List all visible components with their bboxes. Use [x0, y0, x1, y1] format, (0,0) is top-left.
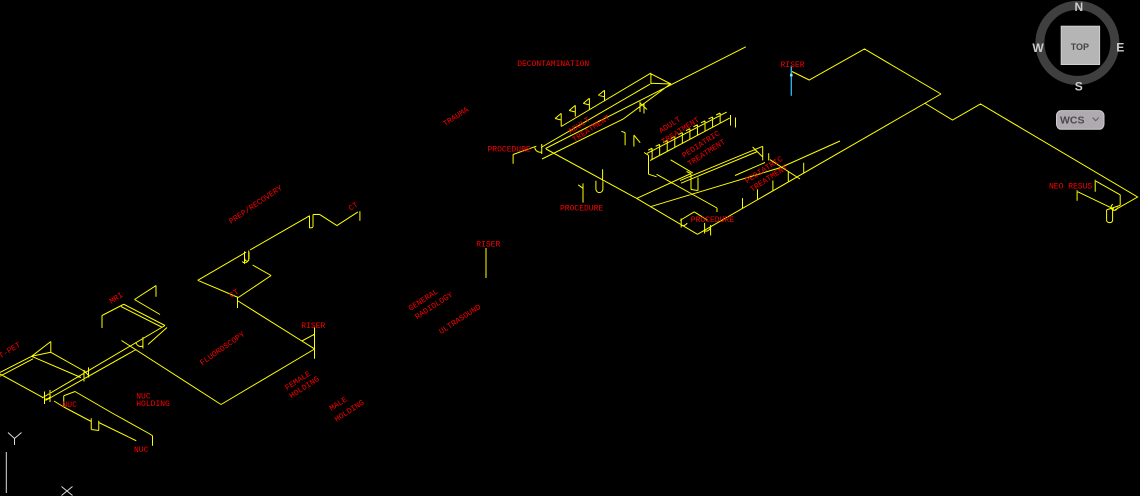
- svg-text:N: N: [1074, 0, 1083, 14]
- svg-text:NUC: NUC: [63, 401, 78, 410]
- svg-text:PROCEDURE: PROCEDURE: [488, 146, 531, 155]
- svg-text:NUC: NUC: [134, 446, 149, 455]
- svg-text:PROCEDURE: PROCEDURE: [691, 216, 734, 225]
- svg-text:HOLDING: HOLDING: [136, 400, 170, 409]
- svg-text:RISER: RISER: [301, 322, 325, 331]
- svg-text:S: S: [1075, 80, 1083, 94]
- svg-text:TOP: TOP: [1071, 42, 1089, 52]
- svg-text:WCS: WCS: [1060, 114, 1085, 126]
- svg-text:W: W: [1032, 41, 1044, 55]
- svg-text:DECONTAMINATION: DECONTAMINATION: [517, 60, 589, 69]
- svg-text:NEO RESUS: NEO RESUS: [1049, 183, 1092, 192]
- svg-text:PROCEDURE: PROCEDURE: [560, 205, 603, 214]
- svg-text:RISER: RISER: [476, 241, 500, 250]
- svg-text:RISER: RISER: [781, 61, 805, 70]
- svg-text:E: E: [1116, 41, 1124, 55]
